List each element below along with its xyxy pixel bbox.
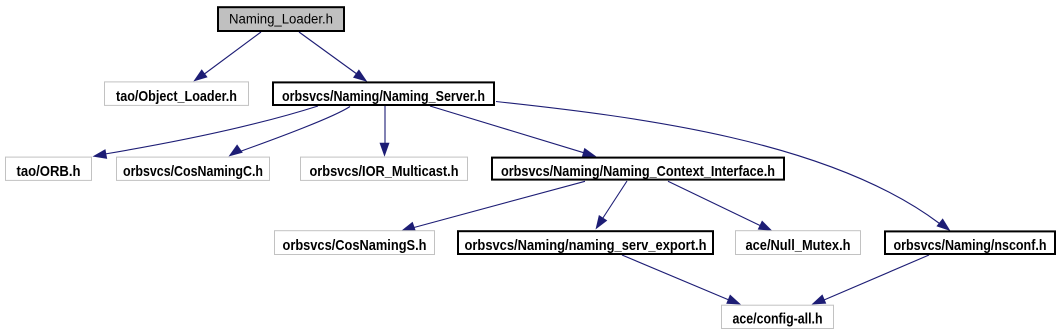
svg-text:tao/Object_Loader.h: tao/Object_Loader.h: [116, 89, 237, 105]
svg-text:ace/Null_Mutex.h: ace/Null_Mutex.h: [746, 238, 851, 254]
svg-text:orbsvcs/CosNamingC.h: orbsvcs/CosNamingC.h: [123, 164, 263, 180]
svg-text:orbsvcs/CosNamingS.h: orbsvcs/CosNamingS.h: [283, 238, 427, 254]
svg-text:orbsvcs/Naming/Naming_Server.h: orbsvcs/Naming/Naming_Server.h: [282, 89, 485, 105]
svg-text:Naming_Loader.h: Naming_Loader.h: [229, 11, 333, 26]
svg-text:orbsvcs/Naming/naming_serv_exp: orbsvcs/Naming/naming_serv_export.h: [465, 238, 707, 254]
svg-text:ace/config-all.h: ace/config-all.h: [733, 312, 823, 328]
svg-text:orbsvcs/Naming/nsconf.h: orbsvcs/Naming/nsconf.h: [894, 238, 1047, 254]
svg-text:orbsvcs/Naming/Naming_Context_: orbsvcs/Naming/Naming_Context_Interface.…: [501, 164, 775, 180]
svg-text:orbsvcs/IOR_Multicast.h: orbsvcs/IOR_Multicast.h: [310, 164, 459, 180]
svg-text:tao/ORB.h: tao/ORB.h: [17, 164, 81, 180]
